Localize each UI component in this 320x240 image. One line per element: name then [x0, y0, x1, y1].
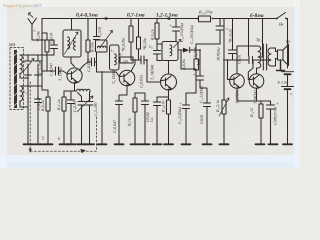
- resistor R3: [62, 91, 66, 143]
- svg-text:+: +: [169, 23, 172, 28]
- T3 collector: [168, 61, 170, 75]
- transistor T1: [67, 68, 82, 83]
- electrolytic C10 from rail: [173, 19, 180, 38]
- svg-text:R₂33к: R₂33к: [90, 42, 95, 53]
- wire box1 to T1 collector: [71, 57, 75, 67]
- svg-text:МА: МА: [8, 42, 16, 47]
- capacitor C3 0,047: [56, 67, 67, 75]
- svg-text:R₂6,2к: R₂6,2к: [40, 100, 45, 112]
- svg-text:R₃1,2к: R₃1,2к: [56, 99, 61, 111]
- svg-text:R₁₃270к: R₁₃270к: [198, 10, 213, 15]
- tuning arrow: [100, 31, 113, 49]
- T4 collector to transformer: [237, 46, 258, 74]
- HF transformer box L3/L4 with tuning arrow: [63, 30, 81, 57]
- box3 tuning arrow: [174, 40, 182, 48]
- battery B1: [282, 72, 294, 145]
- svg-text:T₃ МП40: T₃ МП40: [150, 65, 155, 80]
- C1 arrow: [23, 59, 34, 73]
- svg-text:+: +: [193, 72, 196, 77]
- gang link arrowhead: [80, 149, 86, 154]
- svg-text:R₁₂15: R₁₂15: [249, 108, 254, 118]
- svg-text:T₁ П402: T₁ П402: [58, 67, 63, 81]
- bottom blue scan strip: [0, 155, 300, 168]
- ground riser C1b / cap 0,01: [35, 70, 42, 143]
- emitters common: [237, 88, 271, 101]
- svg-text:6-8ма: 6-8ма: [250, 13, 264, 19]
- svg-text:4,1в: 4,1в: [196, 59, 201, 66]
- capacitor C8 bias: [142, 101, 149, 144]
- wire C5 to T2 base: [95, 62, 120, 77]
- node dot x102: [101, 71, 103, 73]
- variable capacitor C2 col b: [86, 93, 93, 144]
- ferrite rod: [14, 50, 17, 108]
- svg-text:*0,24в: *0,24в: [36, 31, 41, 42]
- T3 emitter: [168, 90, 170, 100]
- base drive line: [224, 59, 248, 61]
- ground riser C1a: [27, 70, 29, 144]
- svg-text:C₉0,033: C₉0,033: [139, 75, 144, 88]
- svg-text:30,0(6в): 30,0(6в): [216, 47, 221, 61]
- wire L1 bottom: [20, 73, 28, 78]
- wire rail drop x42: [42, 19, 48, 91]
- svg-text:C₅0,033: C₅0,033: [86, 59, 91, 72]
- emitter cap C: [154, 97, 169, 144]
- AGC line: [196, 44, 220, 50]
- node dot 135,60: [134, 59, 136, 61]
- svg-text:Б 3,7в: Б 3,7в: [277, 81, 288, 85]
- current arrow 1: [104, 17, 107, 20]
- electrolytic C12 5,0: [183, 93, 190, 144]
- node dot x88: [87, 61, 89, 63]
- box A to node: [96, 52, 98, 62]
- svg-text:C₄0,04: C₄0,04: [72, 101, 77, 112]
- electrolytic C11: [197, 50, 204, 88]
- electrolytic C16 500,0: [267, 101, 275, 144]
- gang link corner arrowhead: [29, 149, 32, 153]
- resistor R12 emitter: [259, 101, 263, 144]
- switch Vk: [276, 13, 287, 20]
- svg-text:220: 220: [123, 59, 129, 63]
- svg-text:C500,0×6в: C500,0×6в: [273, 107, 278, 125]
- svg-text:R₉6,8к: R₉6,8к: [181, 59, 186, 71]
- svg-text:+: +: [290, 92, 293, 97]
- capacitor C7 emitter: [116, 101, 123, 144]
- emitter resistor R10: [167, 100, 171, 144]
- T5 collector: [257, 68, 259, 74]
- diode tap vertical: [181, 50, 196, 69]
- svg-text:C₁₀10,0(6в): C₁₀10,0(6в): [179, 22, 184, 42]
- svg-text:+: +: [276, 101, 279, 106]
- coil L2: [20, 86, 23, 101]
- resistor R2 from rail: [86, 19, 90, 63]
- capacitor C5 0,033: [88, 58, 95, 66]
- svg-text:R₈1к: R₈1к: [127, 118, 132, 127]
- svg-text:РадиоЛоцман.NET: РадиоЛоцман.NET: [3, 3, 42, 8]
- capacitor C15 0,01 from rail: [229, 19, 237, 61]
- resistor R9 6,8k: [186, 50, 199, 93]
- coil L1: [20, 55, 22, 73]
- svg-text:+: +: [179, 101, 182, 106]
- svg-text:C0,01: C0,01: [199, 114, 204, 124]
- svg-text:C₁₃30,0(6в): C₁₃30,0(6в): [189, 24, 194, 44]
- top supply rail: [42, 18, 288, 20]
- right edge tint: [294, 0, 300, 168]
- gang dashed riser to C2: [96, 117, 98, 151]
- svg-text:Вк: Вк: [279, 22, 284, 27]
- C2 arrow: [77, 96, 93, 112]
- wire L2 bottom: [20, 101, 28, 107]
- base line T1: [42, 70, 56, 72]
- svg-text:R₇5,1к: R₇5,1к: [150, 29, 155, 41]
- grain overlay: [0, 0, 300, 168]
- emitter branch left: [64, 90, 75, 92]
- node dot 146,60: [146, 59, 148, 61]
- svg-text:C₁₂5,0(6в): C₁₂5,0(6в): [177, 106, 182, 124]
- svg-text:1,2-1,5ма: 1,2-1,5ма: [156, 13, 178, 19]
- node dot 200,52: [199, 49, 201, 51]
- T1 collector to node x88: [79, 62, 88, 71]
- paper background: [0, 0, 300, 168]
- resistor R4 62k from rail: [129, 19, 135, 61]
- capacitor C4 to ground: [68, 91, 75, 144]
- svg-text:C₇0,047: C₇0,047: [112, 119, 117, 133]
- T4 base wire: [228, 60, 233, 80]
- svg-text:T₂ П402: T₂ П402: [111, 70, 116, 84]
- speaker wires: [271, 48, 278, 66]
- capacitor C6 510: [94, 37, 100, 41]
- svg-text:0,5: 0,5: [41, 136, 45, 140]
- svg-text:*R₁₅6,2к: *R₁₅6,2к: [228, 29, 233, 43]
- T1 emitter drop: [74, 83, 76, 91]
- long ground wire x102: [101, 72, 103, 144]
- series capacitor in base line: [249, 57, 271, 64]
- IF tank capacitor C8: [154, 44, 161, 61]
- gang dashed link horizontal: [30, 150, 96, 152]
- transformer secondary ground: [277, 60, 285, 71]
- svg-text:0,4-0,5ма: 0,4-0,5ма: [76, 13, 98, 19]
- variable capacitor C1 plates col a: [25, 55, 32, 78]
- svg-text:R₁₁5,1к: R₁₁5,1к: [215, 100, 220, 113]
- rail drop to base capacitor: [248, 19, 250, 57]
- rail resistor R13 270k: [197, 16, 214, 22]
- svg-text:C₈: C₈: [149, 45, 154, 49]
- transistor T3: [161, 74, 177, 90]
- svg-text:*R₆20к: *R₆20к: [142, 38, 147, 50]
- wire box top: [157, 31, 176, 61]
- speaker Gr: [278, 45, 289, 66]
- wire L2 top: [20, 85, 42, 87]
- svg-text:Тр₁: Тр₁: [256, 37, 262, 42]
- transistor T4: [230, 74, 245, 89]
- svg-text:*R₄620к: *R₄620к: [121, 38, 126, 52]
- ground symbols row: [24, 143, 293, 145]
- IF tank shield box with coil: [162, 42, 178, 61]
- top edge tint: [0, 0, 300, 7]
- electrolytic C14 30,0 on rail: [216, 19, 224, 45]
- coil box B L5: [110, 45, 120, 70]
- capacitor C9: [135, 56, 147, 64]
- transistor T5: [249, 74, 264, 89]
- svg-text:Д₁Д9Б: Д₁Д9Б: [193, 47, 198, 59]
- svg-text:Cэ: Cэ: [149, 117, 154, 122]
- T3 base bias resistor R8: [133, 93, 145, 143]
- resistor R5 220k: [119, 57, 135, 63]
- T2 collector: [131, 60, 135, 71]
- magnetic antenna dashed box: [10, 48, 24, 110]
- variable capacitor C1 plates col b: [35, 55, 42, 78]
- coil box A L4: [96, 40, 108, 52]
- T5 base wire: [248, 60, 253, 80]
- C11 to ground elbow: [200, 88, 211, 144]
- antenna arrow: [29, 13, 34, 18]
- current arrow 2: [167, 17, 170, 20]
- svg-text:0,7-1ма: 0,7-1ма: [127, 13, 145, 19]
- svg-text:кп: кп: [57, 137, 61, 140]
- gang dashed link vertical: [29, 82, 31, 151]
- svg-text:R₁₀510: R₁₀510: [161, 101, 166, 113]
- paper mottling: [0, 10, 310, 158]
- T2 emitter: [119, 86, 127, 101]
- trimmer R11: [219, 19, 229, 145]
- resistor R1: [42, 33, 49, 71]
- resistor R7 from rail: [155, 19, 159, 45]
- wire rail to C6: [96, 19, 98, 37]
- coil L4 in emitter: [75, 89, 91, 93]
- node dot col224 on base line: [223, 59, 225, 61]
- wire rail to box1: [71, 19, 73, 31]
- transistor T2: [119, 70, 135, 86]
- resistor R2b bias: [46, 90, 50, 144]
- variable capacitor C2 col a: [78, 93, 86, 145]
- resistor R6 20k from rail: [137, 19, 141, 61]
- svg-text:C₂5-280: C₂5-280: [93, 103, 98, 116]
- left edge tint: [0, 0, 7, 168]
- svg-text:C₃0,047: C₃0,047: [49, 62, 54, 76]
- diode D1: [178, 47, 200, 52]
- node dot 227.5,60: [227, 59, 229, 61]
- wire L1 top to tank: [20, 54, 54, 56]
- svg-text:R₅: R₅: [118, 53, 123, 57]
- svg-text:C₆510: C₆510: [97, 27, 102, 37]
- wire to battery: [287, 19, 289, 69]
- antenna coupling capacitor C 510: [51, 40, 58, 55]
- rail drop to transformer tap: [260, 19, 263, 58]
- antenna fork: [28, 18, 54, 40]
- transformer Tr1: [258, 44, 271, 70]
- wire to T3 base: [147, 60, 161, 82]
